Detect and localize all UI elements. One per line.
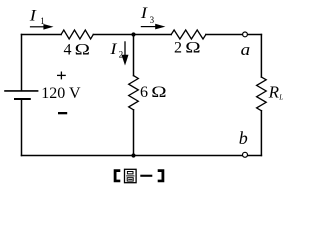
resistor 4-ohm zigzag <box>61 30 93 39</box>
junction dot bottom <box>131 153 135 157</box>
resistor RL zigzag <box>257 77 267 111</box>
svg-text:4: 4 <box>64 41 72 58</box>
wire right vertical upper <box>260 35 262 78</box>
svg-text:6: 6 <box>140 84 148 101</box>
wire 4-ohm to top junction <box>93 34 133 36</box>
wire middle branch upper <box>133 35 135 76</box>
caption glyph one <box>140 175 152 177</box>
junction dot top <box>131 32 135 36</box>
svg-text:1: 1 <box>40 16 45 26</box>
current arrow I3 <box>141 24 166 30</box>
wire bottom-right corner to node b <box>248 155 262 157</box>
resistor 2-ohm zigzag <box>171 30 206 39</box>
svg-text:a: a <box>241 40 251 59</box>
svg-text:Ω: Ω <box>185 39 200 56</box>
svg-text:I: I <box>109 40 118 58</box>
battery minus sign <box>58 112 67 114</box>
caption bracket right <box>158 169 165 182</box>
battery plus sign <box>57 72 66 80</box>
wire node a to top-right corner <box>248 34 262 36</box>
svg-text:2: 2 <box>174 39 182 56</box>
svg-text:2: 2 <box>119 50 124 60</box>
svg-text:I: I <box>140 4 149 22</box>
terminal node a circle <box>243 32 248 37</box>
svg-text:Ω: Ω <box>75 40 90 57</box>
svg-text:b: b <box>239 128 248 148</box>
battery long plate (+) <box>4 90 38 92</box>
wire top-left horizontal segment <box>22 34 62 36</box>
wire right vertical lower <box>260 111 262 156</box>
svg-text:I: I <box>29 6 38 24</box>
battery short plate (-) <box>14 98 31 100</box>
svg-text:R: R <box>268 83 280 102</box>
wire left vertical upper (above battery) <box>21 35 23 91</box>
svg-text:Ω: Ω <box>151 83 166 100</box>
current arrow I2 pointing down <box>122 41 129 65</box>
current arrow I1 <box>30 24 54 30</box>
wire top junction to 2-ohm <box>134 34 172 36</box>
terminal node b circle <box>243 152 248 157</box>
wire middle branch lower <box>133 110 135 156</box>
wire node b to bottom-left corner <box>22 155 243 157</box>
caption bracket left <box>114 169 121 182</box>
svg-text:L: L <box>278 94 283 102</box>
resistor 6-ohm zigzag <box>129 76 139 110</box>
svg-text:3: 3 <box>150 15 155 25</box>
wire 2-ohm to node a <box>206 34 243 36</box>
caption glyph tu (picture) <box>125 169 137 182</box>
wire left vertical lower (below battery) <box>21 99 23 156</box>
svg-text:120 V: 120 V <box>41 85 81 102</box>
